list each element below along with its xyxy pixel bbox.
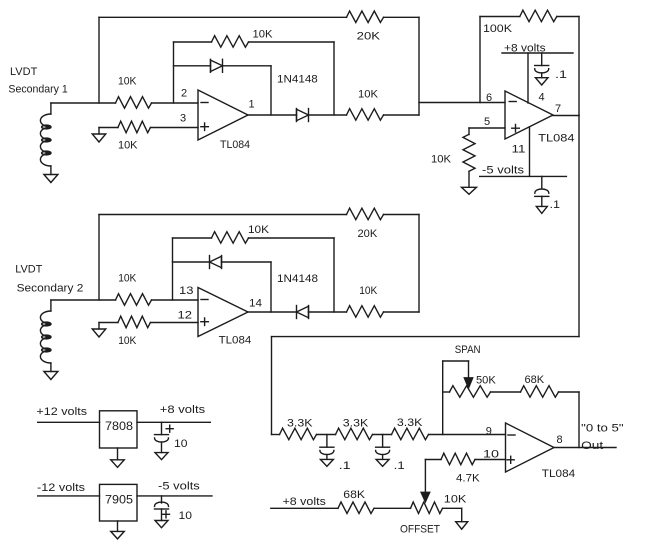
svg-text:14: 14	[249, 298, 262, 310]
svg-text:10: 10	[179, 510, 193, 522]
svg-text:3.3K: 3.3K	[343, 418, 369, 430]
svg-text:TL084: TL084	[219, 335, 252, 347]
svg-text:1N4148: 1N4148	[277, 74, 318, 86]
svg-text:10K: 10K	[248, 224, 270, 236]
svg-text:9: 9	[486, 426, 492, 438]
svg-text:.1: .1	[550, 199, 561, 211]
svg-text:1N4148: 1N4148	[277, 273, 318, 285]
svg-text:OFFSET: OFFSET	[400, 524, 440, 536]
svg-text:.1: .1	[555, 69, 567, 81]
svg-text:68K: 68K	[343, 489, 365, 501]
svg-text:LVDT: LVDT	[15, 264, 42, 276]
svg-text:10K: 10K	[118, 76, 137, 88]
svg-text:"0 to 5": "0 to 5"	[581, 423, 623, 435]
svg-text:13: 13	[179, 285, 194, 297]
svg-text:50K: 50K	[476, 375, 496, 387]
svg-text:8: 8	[557, 434, 563, 446]
svg-text:10K: 10K	[118, 273, 137, 285]
svg-text:10K: 10K	[431, 154, 452, 166]
svg-text:3.3K: 3.3K	[287, 418, 313, 430]
svg-text:TL084: TL084	[542, 468, 575, 480]
svg-text:10K: 10K	[118, 335, 137, 347]
svg-text:4: 4	[539, 92, 545, 104]
svg-text:11: 11	[512, 144, 526, 156]
svg-text:20K: 20K	[358, 228, 378, 240]
svg-text:100K: 100K	[483, 23, 513, 35]
svg-text:10K: 10K	[118, 140, 138, 152]
svg-text:.1: .1	[394, 460, 405, 472]
svg-text:6: 6	[486, 92, 492, 104]
svg-text:3: 3	[180, 113, 186, 125]
svg-text:-5 volts: -5 volts	[158, 481, 200, 493]
svg-text:1: 1	[249, 99, 255, 111]
svg-text:LVDT: LVDT	[10, 66, 38, 78]
svg-text:10K: 10K	[444, 494, 467, 506]
svg-text:3.3K: 3.3K	[397, 417, 423, 429]
svg-text:-12 volts: -12 volts	[37, 482, 86, 494]
svg-text:10: 10	[483, 449, 499, 461]
svg-text:7905: 7905	[105, 495, 133, 507]
svg-text:10K: 10K	[359, 285, 378, 297]
svg-text:7: 7	[555, 103, 561, 115]
svg-text:Secondary 1: Secondary 1	[8, 84, 67, 96]
svg-text:.1: .1	[339, 460, 351, 472]
svg-text:+8 volts: +8 volts	[283, 496, 327, 508]
svg-text:5: 5	[484, 116, 490, 128]
svg-text:+8 volts: +8 volts	[504, 42, 546, 54]
svg-text:68K: 68K	[525, 374, 545, 386]
svg-text:2: 2	[181, 88, 187, 100]
svg-text:+8 volts: +8 volts	[160, 404, 206, 416]
svg-text:-5 volts: -5 volts	[482, 165, 525, 177]
svg-text:+12 volts: +12 volts	[36, 406, 87, 418]
svg-text:TL084: TL084	[538, 133, 574, 145]
svg-text:10: 10	[174, 438, 188, 450]
svg-text:SPAN: SPAN	[455, 344, 481, 356]
svg-text:TL084: TL084	[220, 139, 250, 151]
svg-text:10K: 10K	[253, 29, 274, 41]
svg-text:20K: 20K	[357, 31, 381, 43]
svg-text:7808: 7808	[105, 421, 133, 433]
svg-text:4.7K: 4.7K	[456, 473, 480, 485]
svg-text:12: 12	[178, 310, 193, 322]
svg-text:Secondary 2: Secondary 2	[17, 283, 84, 295]
svg-text:Out: Out	[581, 440, 603, 452]
svg-text:10K: 10K	[358, 89, 379, 101]
